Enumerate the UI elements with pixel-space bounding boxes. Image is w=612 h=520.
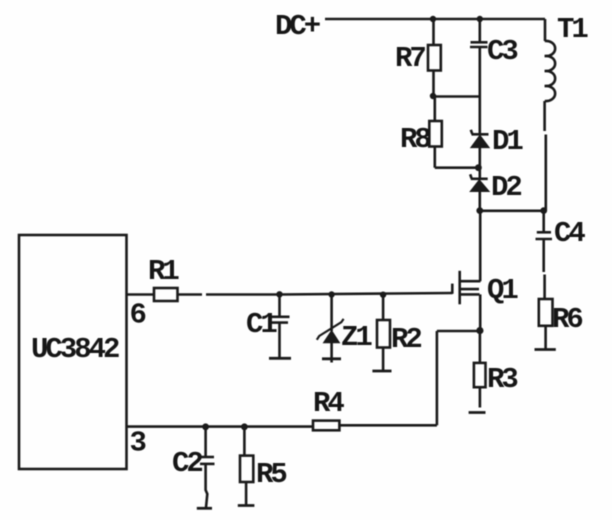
resistor R3 (474, 363, 486, 387)
ground (C2) (197, 507, 212, 510)
wire pin3 to R4 (127, 425, 314, 428)
svg-text:DC+: DC+ (275, 10, 320, 43)
resistor R8 (429, 121, 442, 147)
diode D1 (471, 130, 489, 148)
svg-text:C4: C4 (554, 217, 585, 250)
svg-text:D2: D2 (491, 171, 521, 204)
node D1/D2 junction (475, 164, 482, 171)
label R8 (400, 123, 430, 156)
diode D2 (470, 174, 489, 191)
pin 3 label (130, 427, 146, 460)
node R5 junction (241, 423, 248, 430)
label C4 (554, 217, 585, 250)
label UC3842 (31, 333, 119, 366)
label C1 (246, 308, 277, 341)
svg-text:T1: T1 (557, 13, 588, 46)
svg-text:C1: C1 (246, 308, 277, 341)
svg-text:R7: R7 (395, 42, 425, 75)
resistor R2 (377, 320, 390, 348)
label T1 (557, 13, 588, 46)
resistor R7 (428, 45, 441, 71)
wire R5 drop (243, 427, 246, 456)
wire pin6 to R1 (127, 293, 155, 296)
node C3 top junction (477, 16, 483, 22)
svg-text:R4: R4 (313, 387, 344, 420)
label R3 (487, 363, 517, 396)
svg-text:UC3842: UC3842 (31, 333, 119, 366)
inductor T1 primary coil (545, 41, 555, 101)
svg-text:R8: R8 (400, 123, 430, 156)
svg-text:Z1: Z1 (341, 321, 372, 354)
label D1 (492, 125, 523, 158)
wire R2 drop (382, 295, 385, 320)
label R1 (148, 255, 179, 288)
wire rail to R7 (432, 19, 435, 45)
svg-text:D1: D1 (492, 125, 523, 158)
svg-text:C2: C2 (172, 447, 202, 480)
wire R6 to ground (544, 326, 547, 349)
wire R8 to D1/D2 node (435, 147, 479, 168)
label R2 (391, 323, 421, 356)
label Q1 (487, 274, 518, 307)
wire gate bus (280, 293, 453, 295)
node C2 junction (202, 423, 209, 430)
svg-text:R1: R1 (148, 255, 179, 288)
svg-text:R3: R3 (487, 363, 517, 396)
capacitor C1 (269, 295, 290, 358)
IC U1 UC3842 box (19, 235, 127, 469)
node C1 junction (276, 291, 282, 297)
ground (C1) (269, 357, 291, 360)
wire Q1 source (479, 294, 482, 331)
resistor R4 (313, 421, 339, 431)
ground (R3) (469, 411, 486, 414)
wire D2 to drain node (478, 192, 481, 212)
label R6 (552, 303, 582, 336)
wire DC+ rail (325, 18, 545, 21)
node R7 top junction (430, 16, 436, 22)
wire source to feedback drop (437, 331, 480, 425)
node T1/C4 junction (540, 207, 547, 214)
wire T1 coil to C4 node (with small break) (545, 101, 546, 211)
ground (R2) (372, 370, 391, 373)
ground (R6) (535, 348, 556, 351)
wire R8 drop (433, 97, 436, 122)
label C3 (487, 35, 517, 68)
wire C3 to D1 (478, 47, 481, 134)
transistor Q1 MOSFET (452, 271, 480, 305)
svg-text:6: 6 (130, 299, 146, 332)
node drain junction (476, 207, 483, 214)
svg-text:R2: R2 (391, 323, 421, 356)
wire drain to Q1 (479, 211, 482, 281)
svg-text:C3: C3 (487, 35, 517, 68)
svg-text:R6: R6 (552, 303, 582, 336)
wire C4 drop (542, 211, 545, 232)
node R7/R8 junction (430, 93, 436, 99)
ground (R5) (238, 504, 255, 507)
wire rail to C3 (478, 19, 481, 42)
resistor R1 (154, 288, 178, 301)
label C2 (172, 447, 202, 480)
node R2 junction (380, 292, 386, 298)
wire D1 to node (478, 148, 481, 178)
capacitor C3 (470, 42, 488, 47)
wire R1 to gate node (with small break) (178, 293, 280, 296)
svg-text:R5: R5 (256, 458, 286, 491)
wire R5 to ground (245, 482, 248, 505)
node source junction (476, 327, 483, 334)
wire source to R3 (479, 331, 482, 363)
label Z1 (341, 321, 372, 354)
wire R4 to riser (339, 424, 437, 427)
resistor R5 (240, 456, 253, 482)
capacitor C4 (536, 232, 553, 299)
wire C2 drop (204, 427, 207, 456)
capacitor C2 (199, 457, 215, 508)
label DC+ (275, 10, 320, 43)
label R5 (256, 458, 286, 491)
svg-text:Q1: Q1 (487, 274, 518, 307)
label R7 (395, 42, 425, 75)
svg-text:3: 3 (130, 427, 146, 460)
zener Z1 (317, 295, 344, 358)
label D2 (491, 171, 521, 204)
wire rail to T1 coil (544, 19, 547, 41)
wire R7 node to diode column (433, 95, 480, 98)
wire R3 to ground (479, 387, 482, 407)
pin 6 label (130, 299, 146, 332)
wire drain node to T1 node (480, 210, 544, 213)
label R4 (313, 387, 344, 420)
wire R2 to ground (382, 348, 385, 371)
wire R7 to node (432, 71, 435, 97)
ground (Z1) (322, 359, 341, 363)
node Z1 junction (328, 291, 334, 297)
resistor R6 (539, 299, 553, 326)
